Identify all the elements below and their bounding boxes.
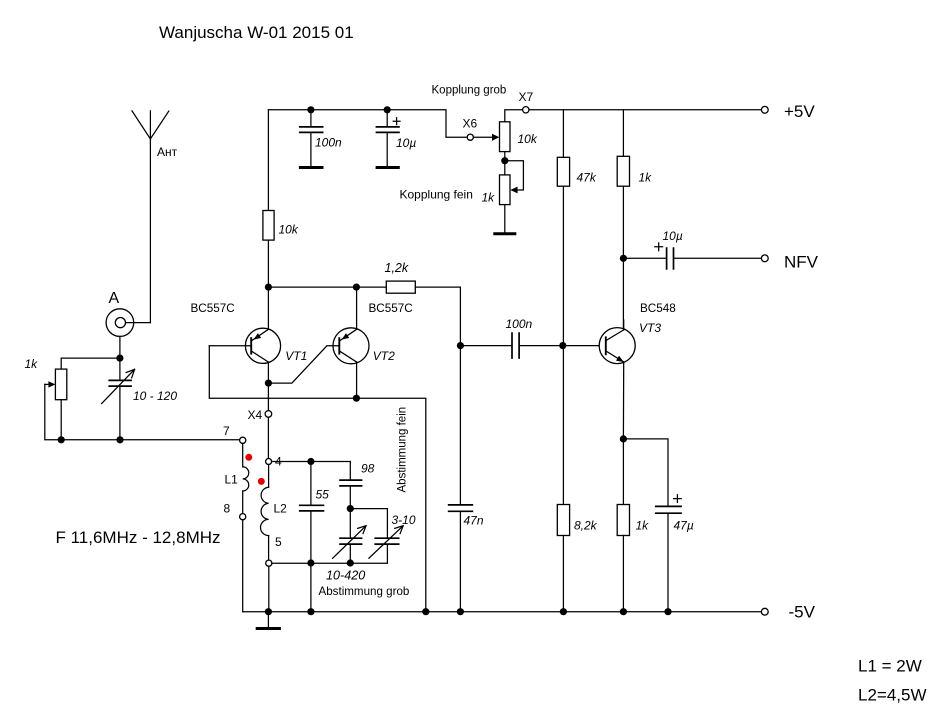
- svg-text:+5V: +5V: [784, 102, 815, 121]
- node socket bottom: [116, 355, 123, 362]
- trimmer capacitor 3-10: [374, 538, 399, 544]
- svg-text:10k: 10k: [279, 223, 299, 237]
- node 8,2k on rail: [560, 608, 567, 615]
- capacitor 47n: [448, 505, 473, 511]
- node 1,2k column at base line: [457, 342, 464, 349]
- node 100n top: [307, 106, 314, 113]
- terminal X6: [467, 134, 473, 140]
- wire wiper down to bottom: [45, 384, 61, 439]
- trimmer capacitor 10-420: [349, 509, 351, 538]
- node cap 10-120 bottom: [116, 436, 123, 443]
- emitter rail wire: [268, 286, 386, 288]
- svg-text:X4: X4: [248, 408, 263, 422]
- wire to trimmer 3-10: [350, 509, 387, 538]
- svg-text:NFV: NFV: [784, 253, 819, 272]
- svg-text:Kopplung fein: Kopplung fein: [400, 188, 473, 202]
- svg-text:100n: 100n: [315, 136, 342, 150]
- svg-text:L1 = 2W: L1 = 2W: [858, 657, 922, 676]
- wire VT1 collector to VT2 base: [268, 346, 339, 383]
- svg-text:47µ: 47µ: [674, 519, 694, 533]
- node NFV tap: [620, 255, 627, 262]
- wire antenna mast down: [149, 139, 151, 323]
- arrow X6 to pot 10k: [473, 136, 492, 138]
- svg-text:VT1: VT1: [285, 349, 307, 363]
- variable capacitor 10-120: [119, 358, 121, 440]
- +5V rail: [529, 109, 761, 111]
- wiper loop to pot 1k fein: [505, 161, 524, 190]
- node 10u top: [384, 106, 391, 113]
- svg-text:BC557C: BC557C: [369, 302, 413, 315]
- svg-text:Abstimmung fein: Abstimmung fein: [396, 407, 408, 493]
- bottom -5V rail: [243, 611, 762, 613]
- capacitor 55: [310, 462, 312, 505]
- resistor 1,2k: [386, 281, 415, 293]
- capacitor 47u: [655, 506, 682, 513]
- node VT1 emitter: [265, 284, 272, 291]
- node 1k on rail: [620, 608, 627, 615]
- svg-text:1k: 1k: [636, 519, 650, 533]
- potentiometer 10k Kopplung grob: [500, 122, 511, 152]
- svg-text:L2=4,5W: L2=4,5W: [858, 686, 927, 705]
- wire VT3 emitter down: [622, 362, 624, 439]
- node 47u on rail: [664, 608, 671, 615]
- svg-text:10-420: 10-420: [326, 569, 365, 583]
- svg-text:7: 7: [223, 424, 230, 438]
- ground at bottom: [267, 612, 269, 628]
- svg-text:Abstimmung grob: Abstimmung grob: [319, 585, 410, 598]
- wire VT2 collector down: [356, 362, 358, 398]
- wire emitter to 47u: [623, 439, 668, 506]
- transistor VT1 BC557C: [245, 328, 280, 363]
- wire bottom to terminal 7: [61, 439, 239, 441]
- antenna: [132, 111, 169, 139]
- transistor VT3 BC548: [599, 328, 635, 364]
- node cap 55 on rail: [307, 608, 314, 615]
- terminal 4: [266, 459, 272, 465]
- capacitor 10u (supply): [386, 110, 388, 167]
- wire pot 1k to ground: [504, 205, 506, 233]
- terminal X7: [523, 107, 529, 113]
- top left supply rail: [268, 110, 467, 137]
- wire VT1 emitter up: [267, 287, 269, 329]
- wire pot 10k top to rail: [505, 110, 523, 122]
- wire X4 to terminal 4: [267, 417, 269, 458]
- terminal 5: [266, 560, 272, 566]
- svg-text:L1: L1: [225, 473, 239, 487]
- resistor 8,2k: [557, 505, 569, 536]
- wire terminal 5 to bottom rail: [268, 566, 270, 611]
- svg-text:-5V: -5V: [789, 603, 816, 622]
- wiper arrow of pot 1k: [45, 383, 49, 385]
- transistor VT2 BC557C: [333, 328, 369, 364]
- svg-text:Wanjuscha W-01 2015 01: Wanjuscha W-01 2015 01: [159, 23, 354, 42]
- svg-text:100n: 100n: [506, 317, 533, 331]
- ground under 10u: [376, 166, 400, 169]
- resistor 10k (VT1 emitter feed): [267, 110, 269, 211]
- wire terminal 7 to L1: [242, 443, 244, 466]
- svg-text:X7: X7: [519, 90, 534, 104]
- terminal NFV: [761, 255, 768, 262]
- resistor 47k: [562, 110, 564, 158]
- svg-text:A: A: [109, 290, 120, 307]
- wire pot 1k bottom: [60, 400, 62, 440]
- coupling capacitor 100n: [460, 345, 511, 347]
- svg-text:L2: L2: [274, 502, 288, 516]
- terminal 8: [240, 514, 246, 520]
- node pot bottom: [58, 436, 65, 443]
- svg-text:1k: 1k: [25, 357, 39, 371]
- node VT1 collector: [265, 380, 272, 387]
- ground under 100n: [299, 166, 324, 169]
- wire pot 10k bottom: [504, 152, 506, 175]
- wire socket bottom to node: [119, 336, 121, 358]
- svg-text:VT3: VT3: [639, 321, 661, 335]
- svg-text:Ант: Ант: [157, 145, 178, 159]
- node cap 98 bottom: [347, 505, 354, 512]
- node 47k column at base line: [559, 342, 566, 349]
- wire tank bottom: [272, 562, 388, 564]
- node cap 55 bottom: [307, 559, 314, 566]
- node L2 bottom on rail: [265, 608, 272, 615]
- svg-text:10µ: 10µ: [663, 229, 683, 243]
- node cap 55 top: [307, 458, 314, 465]
- svg-text:BC548: BC548: [640, 302, 676, 315]
- terminal +5V: [761, 106, 768, 113]
- inductor L1: [243, 467, 249, 491]
- node pot 10k bottom: [501, 157, 508, 164]
- potentiometer 1k (antenna attenuator): [55, 369, 66, 400]
- svg-text:VT2: VT2: [373, 349, 395, 363]
- svg-text:1,2k: 1,2k: [385, 261, 409, 275]
- terminal X4: [267, 383, 269, 411]
- wire L1 to terminal 8: [242, 491, 244, 514]
- node VT2 collector on net: [353, 395, 360, 402]
- wire socket to antenna: [126, 322, 151, 324]
- ground under pot 1k: [493, 232, 516, 235]
- svg-text:5: 5: [275, 535, 282, 549]
- wire VT1 base net down and across: [209, 346, 425, 612]
- wire terminal 8 down to bottom rail: [242, 520, 244, 612]
- svg-text:98: 98: [361, 462, 375, 476]
- potentiometer 1k Kopplung fein: [500, 175, 511, 205]
- resistor 1k (VT3 collector): [622, 110, 624, 157]
- capacitor 98: [349, 462, 351, 480]
- resistor 1k (VT3 emitter): [622, 439, 624, 505]
- wire node left to pot 1k: [61, 358, 120, 369]
- node VT2 emitter: [353, 284, 360, 291]
- wire 1,2k to vertical: [415, 287, 460, 504]
- polarity dot L2: [258, 478, 265, 485]
- node VT3 emitter branch: [620, 435, 627, 442]
- socket A: [106, 309, 134, 337]
- svg-text:8: 8: [224, 502, 231, 516]
- svg-text:Kopplung grob: Kopplung grob: [432, 85, 507, 97]
- svg-text:BC557C: BC557C: [191, 302, 235, 315]
- wire VT3 collector up: [623, 320, 625, 330]
- terminal -5V: [761, 608, 768, 615]
- capacitor 10u (NFV out): [623, 257, 665, 259]
- inductor L2: [268, 465, 270, 488]
- polarity dot L1: [245, 454, 252, 461]
- svg-text:X6: X6: [463, 117, 478, 131]
- wire VT2 emitter up: [356, 287, 358, 329]
- wire VT1 base left: [209, 345, 251, 347]
- svg-text:F 11,6MHz - 12,8MHz: F 11,6MHz - 12,8MHz: [56, 528, 221, 547]
- svg-text:10 - 120: 10 - 120: [133, 389, 177, 403]
- svg-text:8,2k: 8,2k: [574, 519, 598, 533]
- svg-text:10µ: 10µ: [396, 136, 416, 150]
- wire VT1 collector down: [267, 362, 269, 383]
- node base net on rail: [422, 608, 429, 615]
- wire terminal 4 to tank: [272, 461, 351, 463]
- svg-text:47n: 47n: [464, 514, 484, 528]
- terminal 7: [240, 437, 246, 443]
- svg-text:1k: 1k: [639, 171, 653, 185]
- svg-text:10k: 10k: [518, 132, 538, 146]
- svg-text:3-10: 3-10: [392, 513, 416, 527]
- capacitor 100n (supply): [310, 110, 312, 167]
- svg-text:47k: 47k: [577, 171, 597, 185]
- svg-text:1k: 1k: [482, 191, 496, 205]
- svg-text:55: 55: [316, 488, 330, 502]
- node 47n on rail: [457, 608, 464, 615]
- node trimmer 10-420 bottom: [347, 559, 354, 566]
